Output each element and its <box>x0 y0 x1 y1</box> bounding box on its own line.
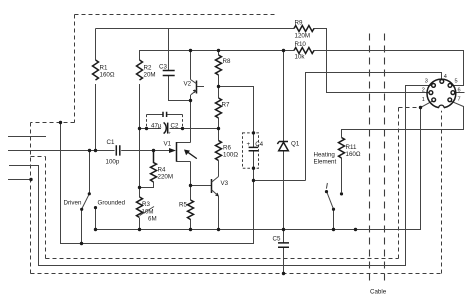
capacitor C3 <box>159 64 175 76</box>
svg-text:160Ω: 160Ω <box>100 72 115 79</box>
svg-text:R7: R7 <box>222 102 230 109</box>
svg-text:R6: R6 <box>223 145 231 152</box>
svg-text:4: 4 <box>444 74 447 80</box>
wire R8 R7 leads chain <box>218 51 220 141</box>
capacitor C2 alternate dashed-connected <box>147 112 183 129</box>
wire R1 bottom lead <box>95 84 97 151</box>
transistor V2 PNP <box>184 80 205 95</box>
node C4 box top <box>252 131 255 134</box>
node stub4 on outer shield <box>29 178 32 181</box>
resistor R3 value 10M crossed out to 6M <box>137 197 157 223</box>
node R4 top on input line <box>152 149 155 152</box>
svg-text:C4: C4 <box>255 141 263 148</box>
wire R2 bottom lead <box>139 84 141 188</box>
svg-text:Cable: Cable <box>370 289 387 296</box>
zener diode Q1 <box>277 141 299 151</box>
wire C2 line R2 to R6 top <box>140 128 219 130</box>
node R2 R3 R4 junction <box>138 186 141 189</box>
svg-text:120M: 120M <box>295 33 310 40</box>
svg-text:R8: R8 <box>223 58 231 65</box>
svg-text:2: 2 <box>422 87 425 93</box>
node Q1 C5 on ground rail <box>282 228 285 231</box>
wire pin4 guard line <box>254 73 442 181</box>
resistor R8 <box>216 55 231 75</box>
switch Driven closed <box>64 151 91 244</box>
svg-text:C2: C2 <box>171 123 179 130</box>
socket pin 7 <box>448 98 452 102</box>
wire Q1 vertical <box>283 51 285 243</box>
wire screen rail y50 R2 top to R10 <box>140 51 295 61</box>
wire C3 bottom to V2 emitter <box>169 76 191 101</box>
svg-text:+: + <box>168 132 171 137</box>
svg-text:100Ω: 100Ω <box>223 152 238 159</box>
svg-text:C1: C1 <box>107 139 115 146</box>
cable dashed line right <box>384 34 386 286</box>
svg-text:1: 1 <box>422 97 425 103</box>
wire input terminal stub 1 <box>8 136 46 138</box>
capacitor C2 47u polarized <box>151 122 179 136</box>
node C4 to guard line <box>252 179 255 182</box>
node V3 emitter on ground rail <box>217 228 220 231</box>
wire heater line R11 to pin 7 <box>342 101 464 137</box>
svg-text:220M: 220M <box>158 174 173 181</box>
svg-text:V2: V2 <box>184 81 192 88</box>
svg-text:6M: 6M <box>148 216 157 223</box>
wire R5 bottom lead <box>190 219 192 230</box>
transistor V1 FET with select arrow <box>164 141 197 162</box>
resistor R7 <box>216 98 230 118</box>
svg-text:6: 6 <box>458 87 461 93</box>
node pin1 shield junction <box>419 106 422 109</box>
svg-text:10k: 10k <box>295 54 306 61</box>
wire R6 bottom to V3 collector <box>218 161 220 177</box>
cable dashed line left <box>369 34 371 286</box>
resistor R11 heating element <box>314 138 361 166</box>
svg-text:5: 5 <box>455 78 458 84</box>
svg-text:3: 3 <box>425 78 428 84</box>
resistor R10 <box>294 41 314 61</box>
svg-text:Driven: Driven <box>64 200 82 207</box>
svg-text:160Ω: 160Ω <box>346 151 361 158</box>
wire main input line <box>8 150 169 152</box>
wire V2 emitter / V1 drain vertical <box>190 95 192 143</box>
transistor V3 NPN <box>212 177 229 197</box>
capacitor C4 electrolytic with dashed box <box>243 133 264 168</box>
svg-text:R5: R5 <box>179 202 187 209</box>
wire C4 bottom lead <box>253 151 255 181</box>
wire input terminal stub 4 <box>8 179 31 181</box>
node R8-R7 junction to C4 <box>217 85 220 88</box>
svg-text:R9: R9 <box>295 20 303 27</box>
resistor R2 <box>137 60 156 80</box>
resistor R6 <box>216 141 239 161</box>
socket pin 4 <box>440 80 444 84</box>
svg-text:7: 7 <box>458 96 461 102</box>
svg-text:C5: C5 <box>273 236 281 243</box>
capacitor C1 <box>106 139 120 166</box>
wire C3 top lead <box>168 29 170 71</box>
svg-text:10M: 10M <box>142 209 154 216</box>
wire V3 emitter lead down <box>218 196 220 230</box>
node C4 box bottom <box>252 167 255 170</box>
wire C4 top to R7/R8 junction <box>219 87 254 148</box>
switch heater <box>325 183 343 230</box>
node guard wire to shield dashed <box>59 121 62 124</box>
node C5 to chassis dashed <box>282 272 285 275</box>
node driven switch tap on input line <box>88 149 91 152</box>
svg-text:R11: R11 <box>346 144 357 151</box>
svg-text:R2: R2 <box>144 65 152 72</box>
wire V1 drain horizontal <box>177 142 191 144</box>
node R5 bottom on ground rail <box>189 228 192 231</box>
node heater switch on ground rail <box>332 228 335 231</box>
node grounded switch on ground rail <box>94 228 97 231</box>
svg-text:Grounded: Grounded <box>98 200 126 207</box>
svg-text:R3: R3 <box>142 201 150 208</box>
wire guard left driven shield <box>61 123 254 244</box>
svg-text:Element: Element <box>314 159 337 166</box>
resistor R4 <box>151 151 173 182</box>
wire V2 collector lead <box>190 51 192 80</box>
tube socket <box>422 74 461 111</box>
node mid ground rail <box>354 228 357 231</box>
svg-text:V1: V1 <box>164 141 172 148</box>
node V2 collector on screen rail <box>189 49 192 52</box>
resistor R9 <box>294 20 314 40</box>
wire V1 source to R5 and V3 base <box>177 162 212 201</box>
wire C5 bottom lead <box>283 247 285 273</box>
node R3 bottom on ground rail <box>138 228 141 231</box>
node C3 to V2 emitter <box>189 99 192 102</box>
svg-text:R1: R1 <box>100 65 108 72</box>
svg-text:R4: R4 <box>158 167 166 174</box>
wire ground rail to pin 1 <box>96 101 432 229</box>
node C2 dashed drop right <box>181 127 184 130</box>
switch Grounded open <box>94 200 126 230</box>
svg-text:20M: 20M <box>144 72 156 79</box>
resistor R1 <box>93 60 115 80</box>
node R7-R6 junction to C2 line <box>217 127 220 130</box>
wire R4 bottom to R3 top junction <box>140 182 154 197</box>
inner dashed shield border <box>31 108 421 259</box>
wire R11 bottom lead to switch contact <box>341 158 343 192</box>
node R1 bottom on input line <box>94 149 97 152</box>
socket pin 3 <box>432 84 436 88</box>
node R8 top on screen rail <box>217 49 220 52</box>
node R2 to C2 line <box>138 127 141 130</box>
outer dashed shield border <box>31 15 442 274</box>
socket pin 6 <box>451 91 455 95</box>
node C2 dashed drop left <box>145 127 148 130</box>
node V1 source R5 V3 base <box>189 184 192 187</box>
svg-text:C3: C3 <box>159 64 167 71</box>
svg-text:Q1: Q1 <box>291 141 300 148</box>
svg-text:Heating: Heating <box>314 152 336 159</box>
svg-text:100p: 100p <box>106 159 120 166</box>
socket pin 5 <box>448 84 452 88</box>
node driven switch on guard line <box>80 242 83 245</box>
svg-text:47µ: 47µ <box>151 123 162 130</box>
svg-text:V3: V3 <box>221 180 229 187</box>
wire R10 right to pin 5 and pin 6 stub <box>314 51 465 93</box>
socket pin 1 <box>432 98 436 102</box>
wire R9 right to pin 2 <box>314 29 430 93</box>
node Q1 top on screen rail <box>282 49 285 52</box>
capacitor C5 <box>273 236 290 248</box>
svg-text:+: + <box>247 141 251 148</box>
wire top rail R1 to R9 <box>96 29 295 61</box>
resistor R5 <box>179 200 194 219</box>
wire R3 bottom lead <box>139 218 141 230</box>
socket pin 2 <box>429 91 433 95</box>
wire input ground loop to pin 3 <box>9 86 432 266</box>
svg-text:R10: R10 <box>295 41 307 48</box>
